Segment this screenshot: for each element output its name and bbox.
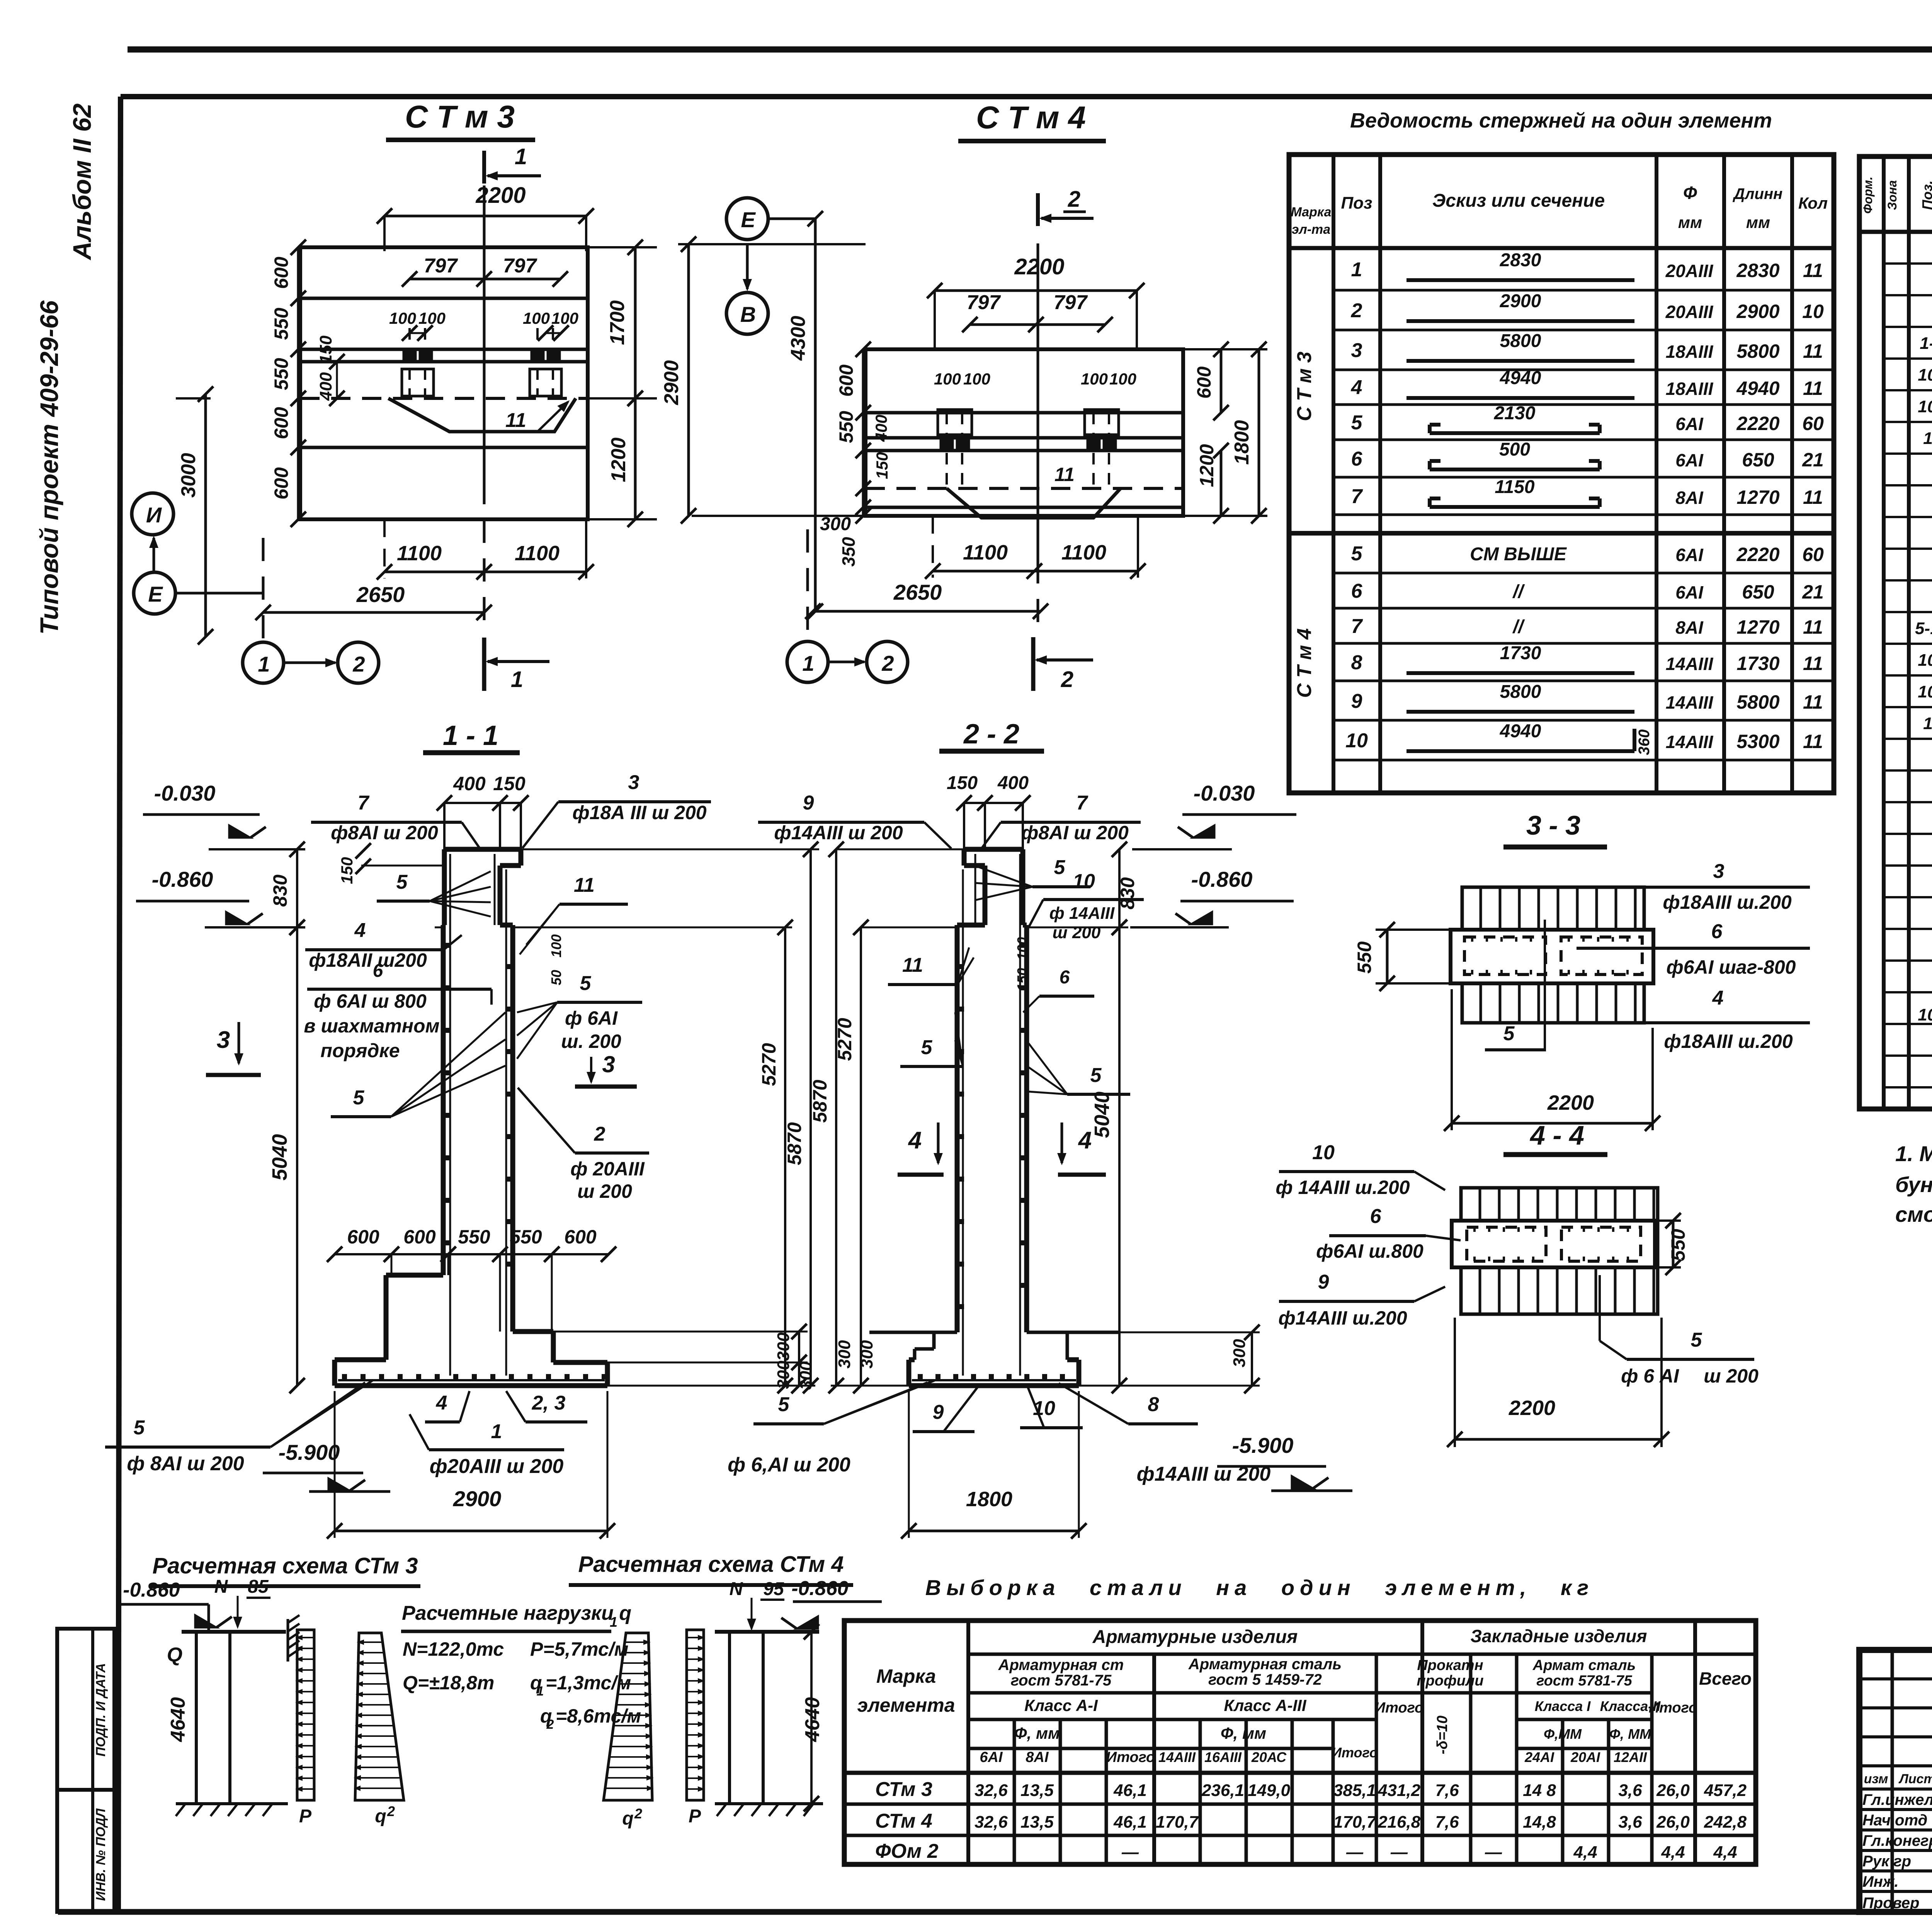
svg-text:Форм.: Форм. [1861,177,1875,214]
svg-text:мм: мм [1678,213,1702,231]
svg-text:гост 5 1459-72: гост 5 1459-72 [1208,1671,1322,1688]
svg-text:2830: 2830 [1736,260,1779,281]
svg-text:2: 2 [634,1806,642,1821]
svg-text://: // [1512,582,1525,602]
svg-text:20АIII: 20АIII [1665,302,1714,322]
svg-text:в шахматном: в шахматном [304,1015,439,1037]
svg-text:11: 11 [505,409,526,432]
svg-text:P: P [299,1806,312,1827]
svg-text:4: 4 [436,1392,447,1414]
svg-text:150: 150 [316,335,335,364]
svg-text:ш 200: ш 200 [1704,1365,1759,1387]
svg-text:2650: 2650 [356,582,405,607]
svg-text:11: 11 [1803,340,1823,362]
svg-text:18АIII: 18АIII [1666,379,1714,399]
svg-text:5870: 5870 [809,1080,831,1122]
svg-text:2: 2 [1061,667,1073,692]
svg-text:5: 5 [1054,856,1066,879]
svg-text:350: 350 [838,537,859,566]
svg-text:5800: 5800 [1736,691,1779,713]
svg-text:20АI: 20АI [1570,1749,1600,1765]
svg-text:1270: 1270 [1736,616,1779,638]
svg-text:Расчетная схема СТм 3: Расчетная схема СТм 3 [153,1553,418,1578]
svg-text:ш 200: ш 200 [577,1180,632,1202]
svg-text:—: — [1121,1843,1139,1862]
svg-text:Q: Q [167,1644,182,1666]
svg-text:14АIII: 14АIII [1666,692,1714,713]
svg-text:1: 1 [802,651,814,675]
svg-text:-0.860: -0.860 [791,1577,849,1600]
svg-text:9: 9 [1351,690,1362,713]
svg-text:ф6АI шаг-800: ф6АI шаг-800 [1667,956,1796,978]
svg-text:Гл.конегр: Гл.конегр [1862,1832,1932,1849]
svg-text:11: 11 [1923,429,1932,448]
svg-text:3000: 3000 [177,453,200,498]
svg-text:5: 5 [1503,1022,1515,1045]
svg-text:1: 1 [491,1420,502,1443]
svg-text:5: 5 [1351,412,1363,434]
svg-text:9: 9 [803,792,814,814]
svg-text:5040: 5040 [1090,1092,1114,1138]
svg-text:6: 6 [1060,967,1070,988]
svg-text:101: 101 [1918,651,1932,670]
svg-text:3: 3 [217,1027,230,1053]
svg-text:P=5,7тс/м: P=5,7тс/м [530,1638,629,1660]
svg-text:гост 5781-75: гост 5781-75 [1536,1673,1632,1689]
svg-text:101: 101 [1918,366,1932,384]
svg-text:26,0: 26,0 [1656,1813,1690,1832]
svg-text:550: 550 [270,358,292,390]
svg-text:650: 650 [1742,581,1774,603]
svg-text:32,6: 32,6 [975,1781,1008,1800]
svg-text:500: 500 [1499,439,1530,460]
svg-text:103: 103 [1918,1005,1932,1024]
svg-text:Лист: Лист [1898,1772,1932,1786]
svg-text:Провер: Провер [1862,1895,1919,1912]
svg-text:С Т м 4: С Т м 4 [976,100,1086,135]
svg-text:Итого: Итого [1649,1700,1697,1716]
svg-text:102: 102 [1918,397,1932,416]
svg-text:—: — [1390,1843,1408,1862]
svg-text:4940: 4940 [1736,378,1779,399]
svg-text:11: 11 [574,874,595,896]
svg-text:150: 150 [1014,968,1030,991]
svg-text:2: 2 [881,651,894,675]
svg-text:550: 550 [1667,1229,1689,1261]
svg-text:11: 11 [1923,714,1932,733]
svg-text:431,2: 431,2 [1378,1781,1421,1800]
svg-text:385,1: 385,1 [1333,1781,1376,1800]
svg-text:13,5: 13,5 [1020,1813,1054,1832]
svg-text:10: 10 [1312,1141,1335,1164]
svg-text:ф18АII ш200: ф18АII ш200 [309,949,427,971]
svg-text:9: 9 [933,1401,944,1423]
svg-text:6АI: 6АI [980,1749,1003,1765]
svg-text:4940: 4940 [1500,368,1541,388]
svg-text:ф 6 АI: ф 6 АI [1621,1365,1679,1387]
svg-text:13,5: 13,5 [1020,1781,1054,1800]
svg-text:ф8АI ш 200: ф8АI ш 200 [1021,822,1129,844]
svg-text:242,8: 242,8 [1704,1813,1747,1832]
svg-text:797: 797 [967,291,1001,314]
svg-text:400: 400 [316,372,335,401]
svg-text:6АI: 6АI [1675,545,1704,565]
svg-text:Зона: Зона [1885,180,1899,210]
svg-text:85: 85 [248,1577,269,1597]
svg-text:ф14АIII ш.200: ф14АIII ш.200 [1278,1307,1407,1329]
svg-text:10: 10 [1802,301,1824,322]
svg-text:изм: изм [1864,1772,1888,1786]
svg-text:11: 11 [1803,691,1823,713]
svg-text:1200: 1200 [1196,444,1218,487]
svg-text:Класс А-III: Класс А-III [1224,1696,1306,1714]
svg-text:Марка: Марка [1291,205,1332,219]
svg-text:Арматурная ст: Арматурная ст [998,1656,1124,1673]
svg-text:Класс А-I: Класс А-I [1024,1696,1098,1714]
svg-text:600: 600 [835,364,857,397]
svg-text:Кол: Кол [1798,194,1828,212]
svg-text:5: 5 [1691,1329,1702,1351]
svg-text:ф18АIII ш.200: ф18АIII ш.200 [1664,1031,1793,1052]
svg-text:4,4: 4,4 [1661,1843,1685,1862]
svg-text:Длинн: Длинн [1733,185,1783,202]
svg-text:170,7: 170,7 [1333,1813,1377,1832]
svg-text:5: 5 [778,1393,790,1416]
svg-text:2, 3: 2, 3 [532,1392,566,1414]
svg-text:ф 14АIII: ф 14АIII [1049,904,1115,923]
svg-text:150: 150 [873,452,891,479]
svg-text:ф 8АI ш 200: ф 8АI ш 200 [127,1452,244,1475]
svg-text:400: 400 [872,415,890,442]
svg-text:5: 5 [1351,543,1363,565]
svg-text:11: 11 [1803,260,1823,281]
svg-text:ф14АIII ш 200: ф14АIII ш 200 [1137,1463,1271,1485]
svg-text:797: 797 [503,255,537,277]
svg-text:100: 100 [1014,937,1030,960]
svg-text:Марка: Марка [876,1665,936,1687]
svg-text:4,4: 4,4 [1713,1843,1737,1862]
svg-text:11: 11 [1803,378,1823,399]
svg-text:Расчетная схема СТм 4: Расчетная схема СТм 4 [578,1552,844,1577]
svg-text:Нач отд: Нач отд [1862,1812,1927,1829]
svg-text:-0.860: -0.860 [1191,867,1253,891]
svg-text:8АI: 8АI [1675,617,1704,638]
svg-text:1: 1 [537,1684,544,1699]
svg-text:Ф: Ф [1683,183,1697,203]
svg-text:ф 14АIII ш.200: ф 14АIII ш.200 [1276,1177,1410,1198]
svg-text:ш 200: ш 200 [1053,923,1101,942]
svg-text:1800: 1800 [966,1488,1012,1511]
svg-text:600: 600 [403,1226,436,1248]
svg-text:8АI: 8АI [1675,488,1704,508]
svg-text:830: 830 [1117,877,1138,910]
svg-text:7: 7 [1351,615,1363,638]
svg-text:100: 100 [934,370,961,388]
svg-text:2: 2 [546,1717,554,1732]
svg-text:ф 6АI: ф 6АI [565,1007,618,1029]
svg-text:300: 300 [1230,1339,1249,1367]
svg-text:4640: 4640 [167,1697,189,1742]
svg-text:ф20АIII ш 200: ф20АIII ш 200 [430,1455,564,1478]
svg-text:7: 7 [1351,485,1363,508]
svg-text:12АII: 12АII [1614,1749,1647,1765]
svg-text:5800: 5800 [1500,682,1541,702]
svg-text:ф6АI ш.800: ф6АI ш.800 [1316,1240,1423,1262]
svg-text:5: 5 [396,871,408,893]
svg-text:-5.900: -5.900 [279,1440,340,1464]
svg-text:7: 7 [1077,792,1088,814]
svg-text:650: 650 [1742,449,1774,471]
svg-text:Альбом II 62: Альбом II 62 [68,103,96,260]
svg-text:5: 5 [921,1036,933,1059]
svg-text:Ф, ММ: Ф, ММ [1609,1726,1651,1742]
svg-text:14 8: 14 8 [1523,1781,1556,1800]
svg-text:ПОДП. И ДАТА: ПОДП. И ДАТА [94,1663,108,1757]
svg-text:10: 10 [1073,870,1095,893]
svg-text:11: 11 [1803,653,1823,674]
svg-text:Выборка стали на один: Выборка стали на один элемент, кг [925,1575,1594,1600]
svg-text:26,0: 26,0 [1656,1781,1690,1800]
svg-text:5: 5 [134,1417,145,1439]
svg-text:14АIII: 14АIII [1666,654,1714,674]
svg-text:400: 400 [997,773,1029,793]
svg-text:830: 830 [269,874,291,907]
svg-text:3: 3 [1351,339,1362,362]
svg-text:Е: Е [741,207,756,232]
svg-text:q: q [622,1808,633,1829]
svg-text:1: 1 [610,1614,617,1630]
svg-text:2200: 2200 [1509,1396,1555,1420]
svg-text:11: 11 [1803,486,1823,508]
svg-text:2200: 2200 [1547,1091,1594,1114]
svg-text:100: 100 [963,370,990,388]
svg-text:СТм 3: СТм 3 [875,1778,932,1801]
svg-text:ф 6АI ш 800: ф 6АI ш 800 [314,990,427,1012]
svg-text:170,7: 170,7 [1156,1813,1199,1832]
svg-text:ф 6,АI ш 200: ф 6,АI ш 200 [728,1454,850,1476]
svg-text:2: 2 [387,1803,395,1819]
svg-text:2 - 2: 2 - 2 [963,719,1019,750]
svg-text:95: 95 [763,1579,784,1599]
svg-text:150: 150 [947,773,978,793]
svg-text:N=122,0тс: N=122,0тс [403,1638,504,1660]
svg-text:Прокатн: Прокатн [1417,1657,1483,1673]
svg-text:N: N [730,1579,743,1599]
svg-text:300: 300 [774,1332,793,1361]
svg-text:1270: 1270 [1736,486,1779,508]
svg-text:-5.900: -5.900 [1232,1433,1294,1458]
svg-text:И: И [146,503,162,527]
svg-text:11: 11 [1803,616,1823,638]
svg-text:1: 1 [258,652,270,676]
svg-text:2830: 2830 [1500,250,1541,270]
svg-text:550: 550 [510,1226,542,1248]
svg-text:236,1: 236,1 [1201,1781,1244,1800]
svg-text:100: 100 [1109,370,1136,388]
svg-text:Закладные изделия: Закладные изделия [1470,1626,1647,1646]
svg-text:100: 100 [1081,370,1108,388]
svg-text:216,8: 216,8 [1378,1813,1421,1832]
svg-text:600: 600 [270,257,292,289]
svg-text:Ф, мм: Ф, мм [1014,1724,1060,1742]
svg-text:6АI: 6АI [1675,414,1704,434]
svg-text:2900: 2900 [660,360,683,405]
svg-text:3: 3 [602,1051,615,1077]
svg-text:Инж.: Инж. [1862,1873,1899,1890]
svg-text:8: 8 [1148,1393,1159,1416]
svg-text:5870: 5870 [784,1122,805,1165]
svg-text:6: 6 [1711,920,1723,943]
svg-text:32,6: 32,6 [975,1813,1008,1832]
svg-text:550: 550 [1354,941,1375,974]
svg-text:600: 600 [347,1226,379,1248]
svg-text:600: 600 [1193,366,1215,399]
svg-text:5800: 5800 [1500,331,1541,351]
svg-text:Итого: Итого [1375,1700,1423,1716]
svg-text:7,6: 7,6 [1435,1813,1459,1832]
svg-text:элемента: элемента [857,1694,955,1716]
svg-text:Q=±18,8т: Q=±18,8т [403,1672,494,1694]
svg-text:20АIII: 20АIII [1665,261,1714,281]
svg-text:4300: 4300 [787,316,810,361]
svg-text:6: 6 [1351,580,1363,602]
svg-text:эл-та: эл-та [1292,222,1330,237]
svg-text:150: 150 [493,773,526,794]
svg-text:24АI: 24АI [1524,1749,1554,1765]
svg-text:СМ ВЫШЕ: СМ ВЫШЕ [1470,544,1567,565]
svg-text:бункера и привязку закладны: бункера и привязку закладных изделий [1895,1172,1932,1197]
svg-text:2650: 2650 [893,580,942,604]
svg-text:5-10: 5-10 [1915,619,1932,638]
svg-text:Ф,ММ: Ф,ММ [1544,1726,1582,1742]
svg-text:3: 3 [1713,860,1725,883]
svg-text:1100: 1100 [963,541,1008,564]
svg-text:16АIII: 16АIII [1204,1749,1242,1765]
svg-text:—: — [1346,1843,1364,1862]
svg-text:8АI: 8АI [1026,1749,1049,1765]
svg-text:Армат сталь: Армат сталь [1532,1657,1636,1673]
svg-text:Ведомость стержней на один: Ведомость стержней на один элемент [1350,109,1772,132]
svg-text:Поз.: Поз. [1919,180,1932,210]
svg-text:5270: 5270 [758,1043,780,1086]
svg-text:С Т м 3: С Т м 3 [1293,352,1316,421]
svg-text:1-7: 1-7 [1920,334,1932,353]
svg-text:ф 20АIII: ф 20АIII [570,1158,645,1180]
svg-text:600: 600 [270,467,292,500]
svg-text:550: 550 [835,411,857,443]
svg-text:50: 50 [548,970,564,985]
svg-text:797: 797 [424,255,458,277]
svg-text:3,6: 3,6 [1618,1781,1642,1800]
svg-text:100: 100 [389,309,416,327]
svg-text:550: 550 [270,308,292,340]
svg-text:С Т м 3: С Т м 3 [405,99,515,134]
svg-text:4: 4 [354,919,366,942]
svg-text:2: 2 [1068,187,1080,212]
svg-text:Итого: Итого [1332,1745,1378,1760]
svg-text:—: — [1485,1843,1502,1862]
svg-text:-0.030: -0.030 [1194,781,1255,805]
svg-text:2130: 2130 [1494,403,1536,423]
svg-text:60: 60 [1802,544,1824,565]
svg-text:ИНВ. № ПОДЛ: ИНВ. № ПОДЛ [94,1808,108,1901]
svg-text:-0.860: -0.860 [123,1579,180,1601]
svg-text:46,1: 46,1 [1113,1813,1147,1832]
svg-text:P: P [689,1806,701,1827]
svg-text:2220: 2220 [1736,544,1779,565]
svg-text:4940: 4940 [1500,721,1541,742]
svg-text:100: 100 [418,309,446,327]
svg-text:ФОм 2: ФОм 2 [875,1840,939,1862]
sheet frame [128,46,1932,53]
svg-text:1150: 1150 [1495,477,1535,497]
svg-text:Всего: Всего [1699,1668,1752,1689]
svg-text:100: 100 [548,934,564,957]
svg-text:4: 4 [908,1127,922,1154]
svg-text://: // [1512,617,1525,637]
svg-text:1730: 1730 [1500,643,1541,663]
svg-text:профили: профили [1417,1673,1483,1689]
svg-text:2: 2 [594,1123,605,1145]
svg-text:14АIII: 14АIII [1666,732,1714,752]
svg-text:5: 5 [580,972,592,995]
svg-text:600: 600 [564,1226,597,1248]
svg-text:1100: 1100 [1061,541,1106,564]
svg-text:150: 150 [338,857,356,884]
svg-text:14АIII: 14АIII [1158,1749,1196,1765]
svg-text:5: 5 [353,1087,365,1109]
svg-text:ф8АI ш 200: ф8АI ш 200 [331,822,438,844]
svg-text:6: 6 [1351,448,1363,470]
svg-text:ф18АIII ш.200: ф18АIII ш.200 [1663,891,1791,913]
svg-text:1: 1 [511,667,523,692]
svg-text:400: 400 [453,773,486,794]
svg-text:С Т м 4: С Т м 4 [1293,628,1316,698]
svg-text:7: 7 [358,792,370,814]
svg-text:Ф, мм: Ф, мм [1221,1724,1266,1742]
svg-text:Класса I: Класса I [1535,1698,1591,1714]
svg-text:9: 9 [1318,1271,1329,1293]
svg-text:1800: 1800 [1231,420,1253,465]
svg-text:4 - 4: 4 - 4 [1529,1120,1584,1150]
svg-text:1700: 1700 [606,300,629,345]
svg-text:4,4: 4,4 [1573,1843,1597,1862]
svg-text:20АС: 20АС [1251,1749,1287,1765]
svg-text:14,8: 14,8 [1523,1813,1556,1832]
svg-text:11: 11 [1054,464,1075,485]
svg-text:СТм 4: СТм 4 [875,1810,932,1832]
svg-text:8: 8 [1351,651,1362,674]
svg-text:Арматурные изделия: Арматурные изделия [1092,1627,1298,1647]
svg-text:мм: мм [1746,213,1770,231]
svg-text:Поз: Поз [1341,194,1372,213]
svg-text:5: 5 [1090,1064,1102,1087]
svg-text:6АI: 6АI [1675,450,1704,470]
svg-text:6АI: 6АI [1675,582,1704,602]
svg-text:q: q [375,1806,386,1827]
svg-text:100: 100 [523,309,550,327]
svg-text:5040: 5040 [268,1134,291,1180]
svg-text:ф18А III ш 200: ф18А III ш 200 [572,802,706,823]
svg-text:18АIII: 18АIII [1666,342,1714,362]
svg-text:смотрите лист КЖ-6.: смотрите лист КЖ-6. [1895,1202,1932,1226]
svg-text:В: В [740,302,756,327]
svg-text:4: 4 [1078,1127,1092,1154]
svg-text:550: 550 [458,1226,490,1248]
svg-text:Арматурная сталь: Арматурная сталь [1188,1656,1342,1673]
svg-text:-0.860: -0.860 [152,867,213,891]
svg-text:2220: 2220 [1736,413,1779,434]
